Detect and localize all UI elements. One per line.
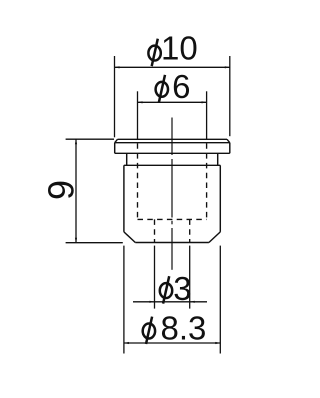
svg-text:9: 9 [41,180,82,200]
extension line 9 bottom [66,242,123,244]
dimension text phi3 : phi symbol [160,276,172,303]
hidden hole phi6 bottom [138,218,207,220]
body shoulder [124,164,220,166]
flange top chamfer right [227,139,230,142]
extension line phi10 right [229,56,231,136]
arrowhead 9 bottom [75,238,77,243]
hidden hole phi3 right side [189,219,191,242]
extension line phi8.3 left [123,246,125,354]
extension line phi6 left [137,91,139,139]
svg-text:8.3: 8.3 [161,310,207,347]
dimension text phi8.3 : phi symbol [143,317,155,344]
dimension line phi6 [138,101,207,103]
body left edge [123,165,125,232]
arrowhead phi6 left [138,101,143,103]
body bottom chamfer right [209,232,220,243]
extension line phi3 right [189,246,191,309]
arrowhead phi10 left [115,66,120,68]
centerline segment 3 [171,228,173,270]
centerline segment 2 [171,159,173,218]
dimension line phi10 [115,66,230,68]
extension line phi6 right [206,91,208,139]
body right edge [219,165,221,232]
part outline: flange top face [118,138,228,140]
arrowhead phi3 right (outside) [190,301,195,303]
dimension line phi3 [133,301,207,303]
hidden hole phi6 left side [137,139,139,219]
extension line phi8.3 right [219,246,221,354]
extension line 9 top [66,138,114,140]
hidden hole phi3 left side [154,219,156,242]
extension line phi3 left [154,246,156,309]
hidden hole phi6 right side [206,139,208,219]
dimension line 9 [75,139,77,243]
centerline short dash [171,221,173,225]
arrowhead phi8.3 left [124,342,129,344]
flange top chamfer left [115,139,118,142]
svg-text:6: 6 [172,68,190,105]
neck left edge [126,153,128,165]
arrowhead phi6 right [202,101,207,103]
flange bottom [115,152,230,154]
svg-text:3: 3 [173,270,191,307]
arrowhead phi3 left (outside) [150,301,155,303]
neck right edge [217,153,219,165]
arrowhead phi8.3 right [215,342,220,344]
body bottom face [135,242,209,244]
svg-text:10: 10 [161,30,198,67]
dimension text phi6 : phi symbol [156,75,168,102]
centerline segment 1 [171,118,173,156]
flange left edge [114,143,116,154]
body bottom chamfer left [124,232,135,243]
arrowhead 9 top [75,139,77,144]
flange right edge [229,143,231,154]
flange chamfer tangent line [115,142,230,144]
dimension text phi10 : phi symbol [148,39,160,66]
arrowhead phi10 right [225,66,230,68]
extension line phi10 left [114,56,116,137]
dimension line phi8.3 [124,342,220,344]
